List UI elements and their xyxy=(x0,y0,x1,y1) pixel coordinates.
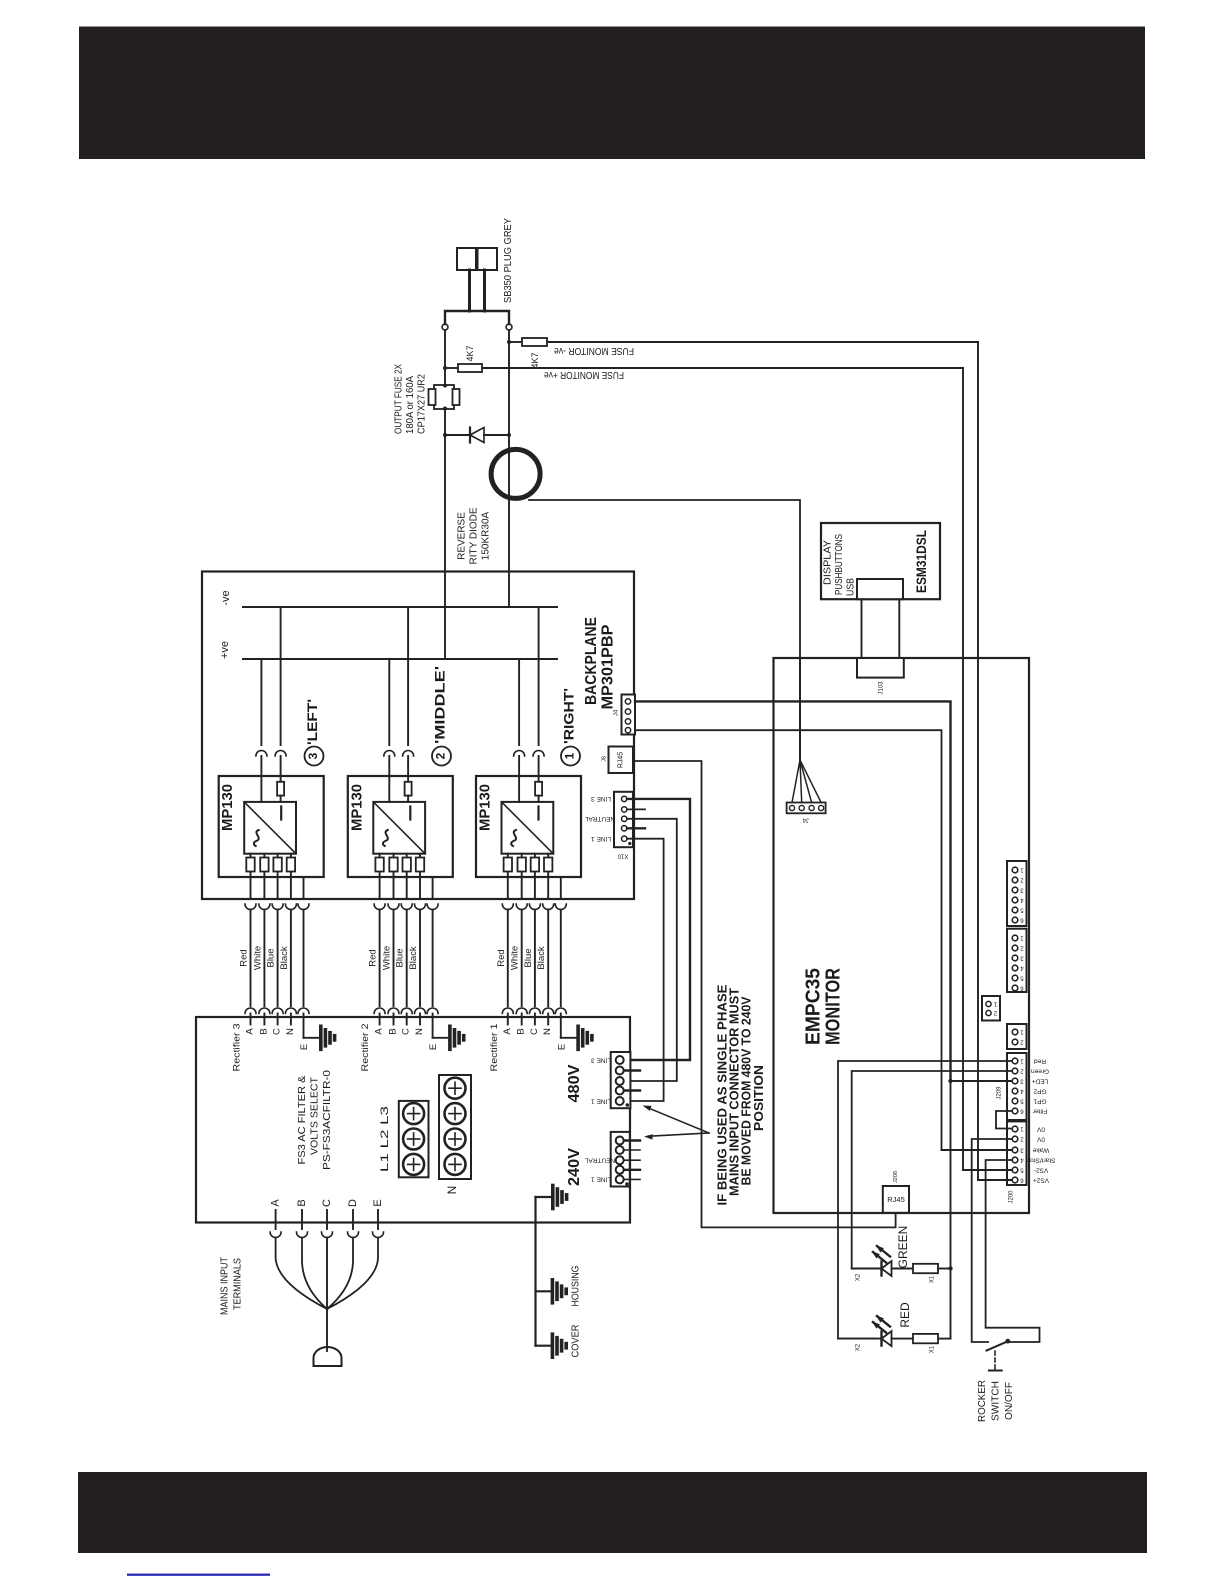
wire FUSE MONITOR +ve run xyxy=(445,367,458,369)
svg-text:L1 L2 L3: L1 L2 L3 xyxy=(379,1106,391,1172)
wire J200 pin6 VS2+ from fuse monitor -ve xyxy=(978,1179,1011,1181)
connector X10 on backplane (5 pins) xyxy=(614,792,633,847)
terminal block N xyxy=(439,1075,471,1179)
wire +ve tap to rectifier 1 xyxy=(518,659,520,745)
wire -ve drop through toroid to -ve rail xyxy=(508,442,510,607)
svg-text:FS3 AC FILTER &: FS3 AC FILTER & xyxy=(296,1076,308,1165)
svg-text:ROCKER: ROCKER xyxy=(976,1380,988,1422)
wire J209 pin2 Green to green LED xyxy=(852,1071,1011,1269)
svg-text:RED: RED xyxy=(898,1302,912,1328)
stub X10 pin4 xyxy=(627,827,645,829)
svg-text:1: 1 xyxy=(563,752,577,759)
svg-text:TERMINALS: TERMINALS xyxy=(233,1258,244,1310)
cable lug xyxy=(314,1347,342,1366)
connector J4 in monitor (4 pins) with fan wires xyxy=(799,658,801,760)
wire J200 pin5 VS2- from fuse monitor +ve xyxy=(963,1169,1011,1171)
svg-text:B: B xyxy=(258,1028,269,1034)
stub 480V pin4 xyxy=(624,1089,640,1091)
svg-text:J103: J103 xyxy=(879,681,885,695)
svg-text:Blue: Blue xyxy=(395,948,406,967)
svg-text:RJ45: RJ45 xyxy=(617,752,624,768)
svg-text:LINE 1: LINE 1 xyxy=(591,1097,611,1104)
wire from toroid to monitor J4 xyxy=(529,500,800,760)
connector arc -ve input rectifier 1 xyxy=(533,751,544,757)
svg-text:Black: Black xyxy=(408,946,419,969)
svg-text:MAINS INPUT: MAINS INPUT xyxy=(220,1257,231,1315)
svg-text:NEUTRAL: NEUTRAL xyxy=(584,815,615,822)
wire J209 pin1 Red to red LED xyxy=(838,1061,1011,1339)
svg-text:0V: 0V xyxy=(1036,1125,1045,1132)
svg-text:180A or 160A: 180A or 160A xyxy=(405,376,416,434)
fuse inside MP130 1 xyxy=(535,782,542,796)
stub 480V pin2 xyxy=(624,1069,640,1071)
output pins MP130 2 xyxy=(379,854,381,899)
wire RJ45 to monitor RJ45 J208 xyxy=(633,761,896,1227)
svg-text:X1: X1 xyxy=(930,1275,936,1283)
svg-text:White: White xyxy=(252,946,263,970)
svg-text:4K7: 4K7 xyxy=(465,345,475,361)
rocker switch blade and contacts xyxy=(987,1341,1009,1351)
output pins MP130 1 xyxy=(507,854,509,899)
svg-text:Filter: Filter xyxy=(1032,1107,1047,1114)
connector 2-pin (offset) xyxy=(982,996,1000,1021)
earth pin MP130 1 xyxy=(560,877,562,899)
svg-text:Rectifier 1: Rectifier 1 xyxy=(489,1024,500,1072)
wire backplane J4 pin1 to monitor LED common xyxy=(635,701,951,1081)
fuse inside MP130 3 xyxy=(277,782,284,796)
wire X10 pin1 LINE3 to 480V pin1 xyxy=(624,799,690,1060)
svg-text:Red: Red xyxy=(1034,1057,1046,1064)
svg-text:USB: USB xyxy=(844,578,856,596)
wire X10 pin5 LINE1 to 480V pin5 xyxy=(624,839,664,1101)
wire X10 pin3 NEUTRAL to 480V pin3 xyxy=(624,819,677,1081)
svg-text:N: N xyxy=(285,1028,296,1035)
svg-text:B: B xyxy=(388,1028,399,1034)
connector J200 (6 pins) xyxy=(1007,1121,1027,1185)
wire J200 pin2 0V to rocker switch xyxy=(972,1139,1011,1342)
svg-text:Blue: Blue xyxy=(523,948,534,967)
wire -ve tap to rectifier 2 xyxy=(407,607,409,745)
svg-text:MP130: MP130 xyxy=(476,784,493,831)
svg-text:MP301PBP: MP301PBP xyxy=(600,625,617,710)
earth symbol HOUSING xyxy=(536,1290,551,1292)
wire -ve drop from plug right terminal xyxy=(508,330,510,442)
svg-text:2: 2 xyxy=(434,752,448,759)
backplane box MP301PBP xyxy=(202,572,634,900)
svg-text:Red: Red xyxy=(496,949,507,966)
mains common wire to lug xyxy=(326,1309,328,1351)
svg-text:A: A xyxy=(374,1028,385,1035)
svg-text:J200: J200 xyxy=(1009,1190,1015,1204)
LED X2 (red) xyxy=(838,1338,882,1340)
svg-text:VS2+: VS2+ xyxy=(1033,1176,1049,1183)
earth pin MP130 3 xyxy=(303,877,305,899)
svg-text:MP130: MP130 xyxy=(219,784,236,831)
connector arc -ve input rectifier 3 xyxy=(275,751,286,757)
svg-text:Black: Black xyxy=(536,946,547,969)
svg-text:J4: J4 xyxy=(802,816,809,822)
rocker switch actuator (dashed) xyxy=(994,1351,996,1369)
earth pin MP130 2 xyxy=(432,877,434,899)
svg-text:LINE 3: LINE 3 xyxy=(591,1056,611,1063)
svg-text:RITY DIODE: RITY DIODE xyxy=(469,507,480,564)
connector arc -ve input rectifier 2 xyxy=(403,751,414,757)
svg-text:Blue: Blue xyxy=(266,948,277,967)
svg-text:DISPLAY: DISPLAY xyxy=(821,540,833,585)
svg-text:A: A xyxy=(270,1199,282,1207)
connector arc +ve input rectifier 3 xyxy=(256,751,267,757)
AC-DC converter symbol MP130 3 xyxy=(244,802,296,854)
svg-text:Rectifier 2: Rectifier 2 xyxy=(360,1024,371,1072)
connector 6-pin (second) on monitor edge xyxy=(1007,929,1027,992)
svg-text:EMPC35: EMPC35 xyxy=(802,968,824,1045)
connector P1 SB350 plug body xyxy=(457,248,476,270)
svg-text:PUSHBUTTONS: PUSHBUTTONS xyxy=(833,534,845,595)
stub X10 pin2 xyxy=(627,808,645,810)
resistor X1 (green) xyxy=(913,1264,938,1273)
bottom black footer bar xyxy=(78,1472,1147,1553)
display box ESM31DSL xyxy=(821,523,940,599)
svg-text:GP1: GP1 xyxy=(1033,1097,1046,1104)
svg-text:J8: J8 xyxy=(601,756,607,762)
stub 240V pin2 xyxy=(624,1149,640,1151)
note leader arrow to 480V connector xyxy=(646,1107,709,1133)
svg-text:D: D xyxy=(347,1199,359,1207)
stub 240V pin1 xyxy=(624,1139,640,1141)
module MP130 rectifier 2 box xyxy=(348,776,453,877)
svg-text:Green: Green xyxy=(1031,1067,1049,1074)
svg-text:POSITION: POSITION xyxy=(752,1065,766,1131)
wire -ve tap to rectifier 3 xyxy=(280,607,282,745)
AC filter box FS3 xyxy=(196,1017,630,1223)
connector RJ45 J208 on monitor bottom edge xyxy=(883,1186,909,1213)
svg-text:E: E xyxy=(428,1044,439,1050)
svg-text:GP2: GP2 xyxy=(1033,1087,1046,1094)
svg-text:B: B xyxy=(516,1028,527,1034)
svg-text:150KR30A: 150KR30A xyxy=(481,511,492,560)
wire LED common continues to LEDs xyxy=(950,1081,952,1339)
svg-text:VOLTS SELECT: VOLTS SELECT xyxy=(308,1076,320,1155)
svg-text:X1: X1 xyxy=(930,1345,936,1353)
connector 480V (5 pins) xyxy=(611,1052,631,1108)
connector arc +ve input rectifier 2 xyxy=(384,751,395,757)
svg-text:GREEN: GREEN xyxy=(896,1226,910,1269)
diode D1 reverse polarity 150KR30A xyxy=(445,434,470,436)
svg-text:SWITCH: SWITCH xyxy=(989,1381,1001,1421)
LED emission arrows (red) xyxy=(873,1322,886,1333)
wire LED+ branch to J209 pin3 xyxy=(951,1080,1012,1082)
svg-text:240V: 240V xyxy=(566,1148,583,1186)
LED X2 (green) xyxy=(852,1268,882,1270)
terminal block L1 L2 L3 xyxy=(399,1101,429,1177)
svg-text:N: N xyxy=(542,1028,553,1035)
svg-text:'RIGHT': 'RIGHT' xyxy=(562,688,577,744)
svg-text:+ve: +ve xyxy=(219,641,231,659)
wire J200 pin3 Wake from backplane J4 xyxy=(942,1149,1012,1151)
earth symbol rectifier 1 xyxy=(576,1026,580,1049)
wire +ve tap to rectifier 2 xyxy=(388,659,390,745)
svg-text:REVERSE: REVERSE xyxy=(457,512,468,560)
svg-text:X2: X2 xyxy=(856,1343,862,1351)
svg-text:3: 3 xyxy=(306,752,320,759)
earth terminal E rectifier 1 xyxy=(560,1014,562,1038)
svg-text:VS2-: VS2- xyxy=(1034,1166,1048,1173)
svg-text:LINE 3: LINE 3 xyxy=(591,795,611,802)
monitor box EMPC35 xyxy=(774,658,1030,1213)
svg-text:COVER: COVER xyxy=(571,1325,582,1358)
earth symbol inside filter box xyxy=(534,1197,536,1346)
plug-socket arcs above rectifier box (group 3) xyxy=(245,1008,256,1013)
svg-text:FUSE MONITOR +ve: FUSE MONITOR +ve xyxy=(544,369,624,380)
svg-text:480V: 480V xyxy=(566,1064,583,1102)
plug bracket wire xyxy=(445,311,509,324)
svg-text:Red: Red xyxy=(368,949,379,966)
earth terminal E rectifier 3 xyxy=(303,1014,305,1038)
jumper J209 pin6 Filter to J200 pin1 0V xyxy=(996,1111,1011,1129)
connector J103 on monitor top edge xyxy=(857,658,904,678)
connector arc +ve input rectifier 1 xyxy=(514,751,525,757)
svg-text:White: White xyxy=(510,946,521,970)
plug-socket arcs below backplane (group 3) xyxy=(245,904,256,910)
display connector xyxy=(857,579,903,599)
svg-text:-ve: -ve xyxy=(220,590,232,605)
wire -ve tap to rectifier 1 xyxy=(538,607,540,745)
plug pin wires xyxy=(468,270,471,311)
fuse inside MP130 2 xyxy=(405,782,412,796)
AC-DC converter symbol MP130 2 xyxy=(373,802,425,854)
svg-text:Start/Stop: Start/Stop xyxy=(1026,1156,1055,1163)
wire +ve drop from plug left terminal xyxy=(444,330,446,385)
svg-text:E: E xyxy=(372,1199,384,1206)
svg-text:C: C xyxy=(401,1028,412,1035)
svg-text:LED+: LED+ xyxy=(1032,1077,1049,1084)
stub 240V pin5 xyxy=(624,1178,640,1180)
svg-text:ESM31DSL: ESM31DSL xyxy=(913,530,929,593)
top black header bar xyxy=(79,27,1145,160)
connector J4 on backplane (4 pins) xyxy=(622,695,636,735)
wire +ve tap to rectifier 3 xyxy=(260,659,262,745)
svg-text:'LEFT': 'LEFT' xyxy=(305,699,320,745)
svg-text:OUTPUT FUSE 2X: OUTPUT FUSE 2X xyxy=(394,364,405,434)
connector 6-pin (top) on monitor edge xyxy=(1007,861,1027,926)
svg-text:Wake: Wake xyxy=(1032,1146,1049,1153)
svg-text:X2: X2 xyxy=(856,1273,862,1281)
svg-text:E: E xyxy=(556,1044,567,1050)
display cable wires xyxy=(861,599,863,658)
svg-text:A: A xyxy=(502,1028,513,1035)
svg-text:N: N xyxy=(414,1028,425,1035)
earth terminal E rectifier 2 xyxy=(432,1014,434,1038)
connector 2-pin on monitor edge xyxy=(1007,1024,1027,1049)
current transformer toroid xyxy=(491,449,540,498)
plug-socket arcs above rectifier box (group 2) xyxy=(374,1008,385,1014)
svg-text:N: N xyxy=(445,1186,459,1195)
earth symbol rectifier 3 xyxy=(319,1026,323,1049)
terminal stubs A B C N rectifier 2 xyxy=(379,1014,381,1025)
svg-text:CP17X27 UR2: CP17X27 UR2 xyxy=(417,374,428,434)
module MP130 rectifier 1 box xyxy=(476,776,581,877)
svg-text:FUSE MONITOR -ve: FUSE MONITOR -ve xyxy=(554,345,634,356)
-ve rail wire xyxy=(243,606,557,608)
resistor 4K7 (fuse monitor +ve) xyxy=(458,364,482,372)
+ve rail wire xyxy=(243,658,557,660)
wire backplane J4 pin4 to monitor Wake xyxy=(635,730,942,1150)
svg-text:MP130: MP130 xyxy=(348,784,365,831)
note leader arrow to 240V connector xyxy=(648,1133,709,1136)
connector 240V (5 pins) xyxy=(611,1132,630,1187)
svg-text:ON/OFF: ON/OFF xyxy=(1003,1382,1015,1420)
LED emission arrows (green) xyxy=(873,1252,886,1263)
fuse F1 output fuse holder xyxy=(434,385,454,409)
blue footer rule xyxy=(127,1574,270,1576)
plug terminal circles xyxy=(442,324,448,330)
mains fan-in wires xyxy=(276,1238,327,1310)
svg-text:A: A xyxy=(245,1028,256,1035)
svg-text:LINE 1: LINE 1 xyxy=(591,835,611,842)
wire FUSE MONITOR -ve run xyxy=(509,341,522,343)
svg-text:0V: 0V xyxy=(1036,1135,1045,1142)
earth symbol rectifier 2 xyxy=(448,1026,452,1049)
svg-text:J4: J4 xyxy=(614,709,620,716)
svg-text:MONITOR: MONITOR xyxy=(822,968,844,1045)
output pins MP130 3 xyxy=(250,854,252,899)
svg-text:J208: J208 xyxy=(893,1171,899,1183)
svg-text:C: C xyxy=(272,1028,283,1035)
svg-text:C: C xyxy=(321,1199,333,1207)
svg-text:SB350 PLUG GREY: SB350 PLUG GREY xyxy=(502,218,514,303)
svg-text:B: B xyxy=(296,1199,308,1206)
svg-text:PS-FS3ACFILTR-0: PS-FS3ACFILTR-0 xyxy=(321,1070,333,1170)
AC-DC converter symbol MP130 1 xyxy=(502,802,554,854)
module MP130 rectifier 3 box xyxy=(219,776,324,877)
svg-text:White: White xyxy=(382,946,393,970)
svg-text:RJ45: RJ45 xyxy=(887,1195,905,1204)
earth symbol COVER xyxy=(536,1345,551,1347)
terminal stubs A B C N rectifier 1 xyxy=(507,1014,509,1025)
resistor X1 (red) xyxy=(913,1334,938,1343)
terminal stubs A B C N rectifier 3 xyxy=(250,1014,252,1025)
svg-text:Rectifier 3: Rectifier 3 xyxy=(232,1024,243,1072)
svg-text:Black: Black xyxy=(279,946,290,969)
stub 240V pin3 xyxy=(624,1159,640,1161)
svg-text:4K7: 4K7 xyxy=(530,352,540,368)
connector J209 (6 pins) xyxy=(1007,1053,1027,1120)
svg-text:BACKPLANE: BACKPLANE xyxy=(583,617,600,705)
svg-text:C: C xyxy=(529,1028,540,1035)
svg-text:E: E xyxy=(299,1044,310,1050)
plug-socket arcs below backplane (group 2) xyxy=(374,904,385,910)
resistor 4K7 (fuse monitor -ve) xyxy=(522,338,547,346)
svg-text:'MIDDLE': 'MIDDLE' xyxy=(433,666,448,744)
svg-text:J209: J209 xyxy=(997,1086,1003,1100)
svg-text:Red: Red xyxy=(239,949,250,966)
svg-text:X10: X10 xyxy=(617,852,628,858)
svg-text:HOUSING: HOUSING xyxy=(571,1265,582,1306)
wire J200 pin4 Start/Stop to rocker switch contact xyxy=(986,1160,1040,1342)
plug-socket arcs above rectifier box (group 1) xyxy=(502,1008,513,1013)
wire from output fuse to +ve rail xyxy=(444,409,446,659)
stub 240V pin4 xyxy=(624,1169,640,1171)
connector RJ45 on backplane xyxy=(609,747,634,774)
plug-socket arcs below backplane (group 1) xyxy=(502,904,513,910)
svg-text:LINE 1: LINE 1 xyxy=(591,1176,611,1183)
svg-text:NEUTRAL: NEUTRAL xyxy=(584,1156,615,1163)
